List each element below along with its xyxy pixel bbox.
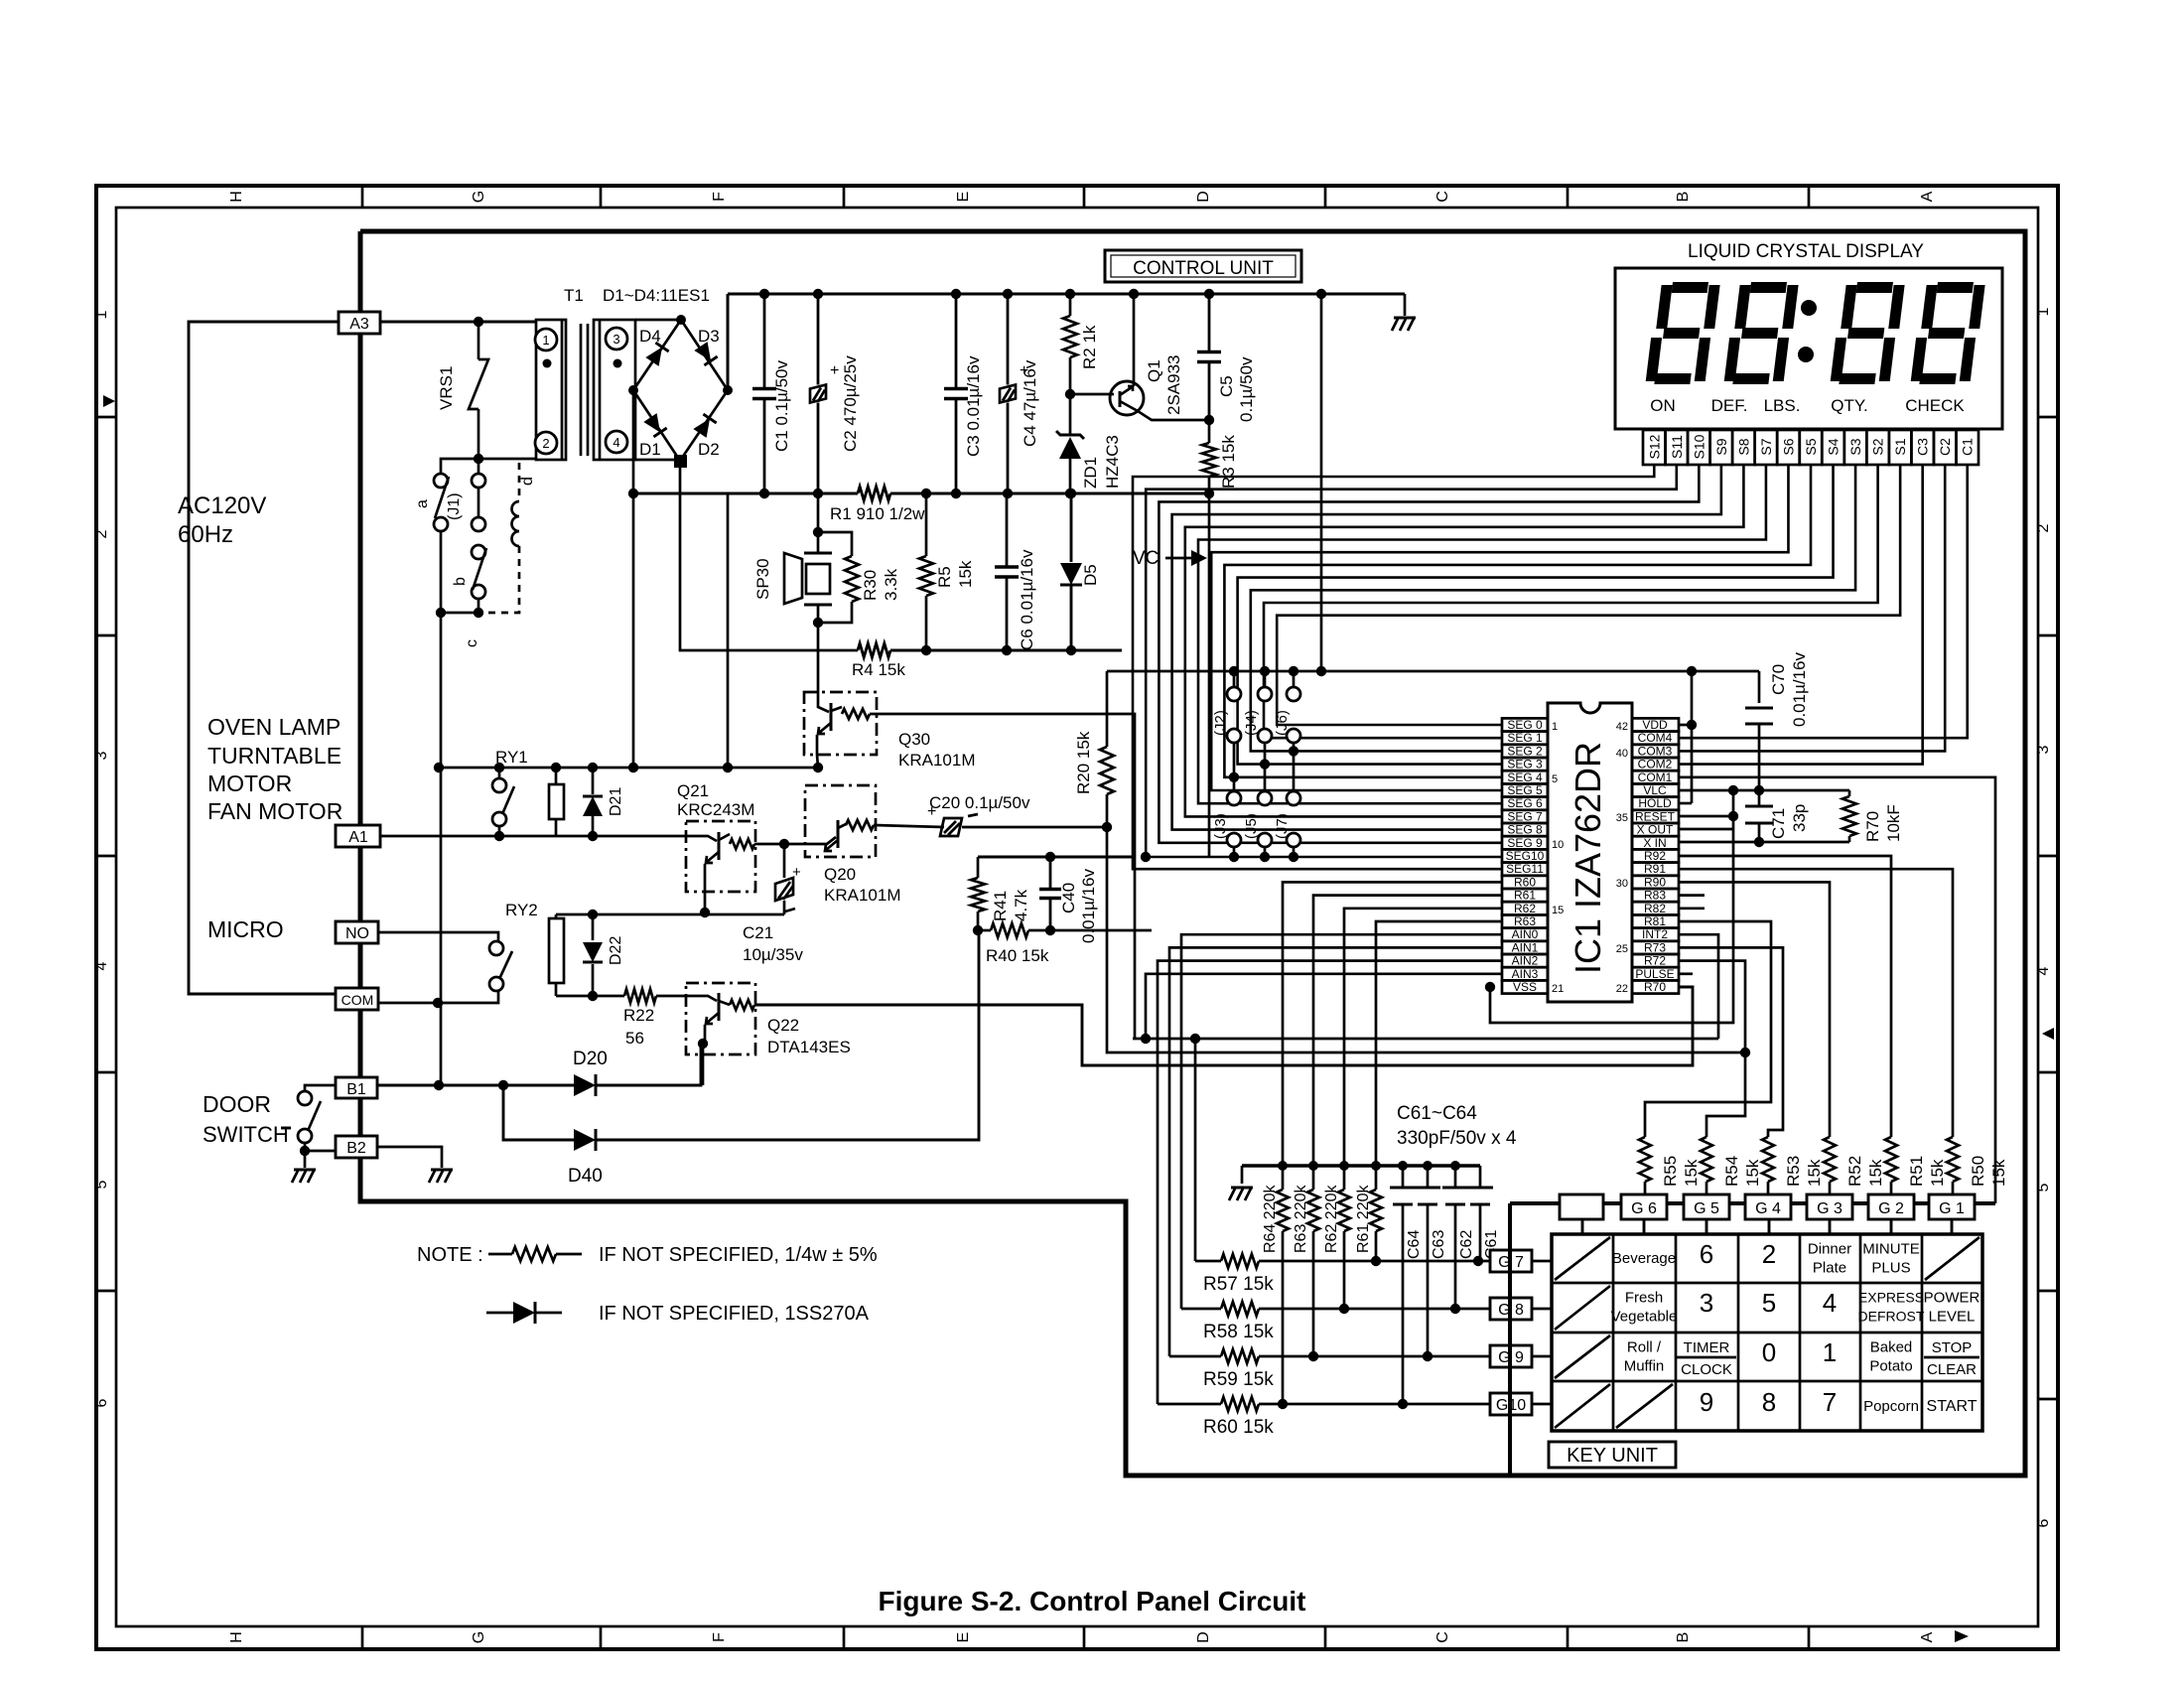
svg-text:R73: R73 [1644,940,1666,954]
svg-text:B: B [1675,1632,1692,1643]
svg-text:R59 15k: R59 15k [1203,1369,1274,1390]
resistor R70 10kF [1848,790,1851,796]
VC line down from C5/R3 junction [1208,493,1211,857]
svg-text:R30: R30 [861,570,880,601]
svg-text:B1: B1 [346,1081,366,1098]
svg-text:3: 3 [2035,745,2052,754]
svg-text:2: 2 [93,529,110,538]
pin box SEG11 (left) [1502,863,1548,876]
svg-text:S7: S7 [1758,438,1774,455]
wire S9 to SEG8 [1172,465,1721,830]
resistor R3 15k [1202,443,1216,477]
svg-text:NO: NO [345,925,369,942]
svg-text:IF NOT SPECIFIED, 1SS270A: IF NOT SPECIFIED, 1SS270A [599,1303,870,1325]
switch blade b [473,548,486,590]
svg-text:Q21: Q21 [677,781,709,800]
resistor R41 4.7k [977,857,980,878]
svg-text:VRS1: VRS1 [437,366,456,410]
T1 pin 1 [535,329,557,351]
svg-text:R64 220k: R64 220k [1262,1185,1279,1253]
net RESET to VSS loop column [1679,815,1733,818]
resistor R51 15k [1885,1137,1897,1182]
wire COM to RY2 [378,991,498,1003]
capacitor C4 (electrolytic) [1007,294,1010,385]
wire C3 to COM2 [1679,465,1923,765]
pin box R83 (right) [1632,889,1679,902]
svg-text:AIN3: AIN3 [1512,967,1539,981]
svg-text:R90: R90 [1644,875,1666,889]
lower supply rail [633,492,858,495]
resistor R64 220k [1282,1166,1285,1190]
svg-text:SP30: SP30 [753,558,772,600]
svg-text:(J6): (J6) [1274,710,1291,736]
svg-text:D3: D3 [698,327,720,346]
svg-text:LBS.: LBS. [1764,396,1801,415]
net AIN1 to R59 [1169,947,1502,1356]
svg-text:NOTE :: NOTE : [417,1244,483,1266]
node NO terminal box [336,921,378,943]
svg-text:Figure S-2. Control Panel Circ: Figure S-2. Control Panel Circuit [879,1586,1306,1616]
net R72 to R54 column [1679,961,1745,1137]
svg-text:R4 15k: R4 15k [852,660,905,679]
svg-text:D1: D1 [639,440,661,459]
wire A3 to AC line left bracket [189,322,339,994]
svg-text:IF NOT SPECIFIED, 1/4w ± 5%: IF NOT SPECIFIED, 1/4w ± 5% [599,1244,878,1266]
svg-text:A1: A1 [348,829,368,846]
svg-text:R92: R92 [1644,849,1666,863]
pin box R91 (right) [1632,863,1679,876]
svg-text:B2: B2 [346,1140,366,1157]
diode D5 [1070,493,1073,562]
ground at door switch [304,1151,307,1168]
svg-text:VLC: VLC [1643,783,1667,797]
svg-text:D5: D5 [1081,564,1100,586]
LCD digit 2 [1723,282,1799,384]
svg-text:7: 7 [1823,1387,1837,1417]
capacitor C64 [1402,1166,1405,1188]
svg-text:R72: R72 [1644,954,1666,968]
svg-text:F: F [711,1632,728,1642]
resistor R61 220k [1375,1166,1378,1190]
resistor R57 15k [1195,1260,1221,1263]
pin box SEG 9 (left) [1502,836,1548,849]
transistor Q21 KRC243M (digital) [686,821,755,892]
pin box R81 (right) [1632,914,1679,927]
diode D20 [377,1084,574,1087]
node G 3 box [1807,1194,1852,1219]
wire VSS loop under IC [1490,790,1733,1023]
svg-text:C61~C64: C61~C64 [1397,1103,1477,1124]
svg-text:VSS: VSS [1513,980,1537,994]
IC IC1 IZA762DR body [1548,703,1632,1002]
svg-text:FAN MOTOR: FAN MOTOR [207,798,342,824]
svg-text:VDD: VDD [1642,718,1668,732]
pin box VSS (left) [1502,980,1548,993]
net VDD pin to x1704 [1679,724,1692,727]
svg-text:SWITCH: SWITCH [203,1122,289,1147]
svg-text:COM4: COM4 [1638,731,1673,745]
resistor R2 1k [1069,294,1072,316]
svg-text:R63 220k: R63 220k [1293,1185,1309,1253]
svg-text:R1 910 1/2w: R1 910 1/2w [830,504,925,523]
svg-text:DTA143ES: DTA143ES [767,1038,851,1056]
svg-text:KRA101M: KRA101M [898,751,975,770]
resistor R58 15k [1181,1308,1221,1311]
svg-text:S8: S8 [1735,438,1751,455]
node G 4 box [1745,1194,1791,1219]
pin box R61 (left) [1502,889,1548,902]
svg-text:1: 1 [2035,307,2052,316]
diode D1 [643,413,666,437]
svg-text:R57 15k: R57 15k [1203,1274,1274,1295]
svg-text:C3: C3 [1915,438,1931,456]
svg-text:15k: 15k [1928,1159,1947,1187]
svg-text:D: D [1195,191,1212,203]
net R81 to R55 column [1645,921,1771,1137]
svg-text:Popcorn: Popcorn [1863,1398,1919,1415]
svg-text:R91: R91 [1644,862,1666,876]
diode D40 [503,1085,574,1140]
svg-text:SEG 4: SEG 4 [1507,771,1543,784]
svg-text:d: d [519,477,536,486]
svg-text:D20: D20 [573,1049,608,1069]
svg-text:3: 3 [93,751,110,760]
svg-text:C63: C63 [1431,1230,1447,1259]
pin box SEG 3 (left) [1502,758,1548,771]
net R60pin to R64 column [1283,882,1502,1166]
svg-text:R2 1k: R2 1k [1080,325,1099,369]
svg-text:SEG11: SEG11 [1506,862,1544,876]
node G 7 box [1490,1250,1532,1272]
svg-text:C: C [1434,1631,1451,1643]
pin box SEG 1 (left) [1502,732,1548,745]
svg-text:DEF.: DEF. [1711,396,1748,415]
pin box INT2 (right) [1632,928,1679,941]
svg-text:AIN1: AIN1 [1512,940,1539,954]
svg-text:SEG 9: SEG 9 [1507,836,1543,850]
keypad diagonal blank cells [1555,1237,1610,1280]
LCD box [1615,268,2002,429]
svg-text:H: H [228,1631,245,1643]
svg-text:R41: R41 [991,891,1010,921]
node G 9 box [1490,1345,1532,1367]
svg-text:C21: C21 [743,923,773,942]
wire S1 to SEG0 [1277,465,1900,725]
svg-text:E: E [955,1632,972,1643]
svg-text:PLUS: PLUS [1871,1260,1910,1277]
resistor R52 15k [1824,1137,1836,1182]
svg-text:4: 4 [1823,1288,1837,1318]
capacitor C3 [955,294,958,389]
svg-text:S5: S5 [1803,438,1819,455]
control unit board outline [360,231,2025,1475]
svg-text:R62 220k: R62 220k [1323,1185,1340,1253]
net D22 top (y=921) [556,913,784,916]
resistor R55 15k [1639,1137,1651,1182]
wire bridge left node down [632,390,635,768]
svg-text:R61 220k: R61 220k [1355,1185,1372,1253]
pin box COM4 (right) [1632,732,1679,745]
wire VDD rail down (x=1331) [1320,294,1323,671]
svg-text:3.3k: 3.3k [882,568,900,601]
outer border frame [96,186,2058,1649]
net PULSE stub [1679,972,1693,975]
svg-text:15k: 15k [1805,1159,1824,1187]
svg-text:AIN0: AIN0 [1512,927,1539,941]
svg-text:CLEAR: CLEAR [1927,1361,1977,1378]
jumper J2 [1233,671,1236,687]
svg-text:C20 0.1µ/50v: C20 0.1µ/50v [929,793,1030,812]
svg-text:c: c [464,639,480,647]
node G10 box [1490,1393,1532,1415]
svg-text:2: 2 [2035,523,2052,532]
jumper J5 [1264,765,1267,791]
pin box R92 (right) [1632,849,1679,862]
switch group a/b/c with jumper J1 [478,459,480,475]
svg-text:0.01µ/16v: 0.01µ/16v [1790,651,1809,727]
svg-text:SEG 2: SEG 2 [1507,744,1543,758]
svg-text:(J3): (J3) [1212,813,1229,839]
svg-text:SEG 8: SEG 8 [1507,823,1543,837]
svg-text:HOLD: HOLD [1638,796,1672,810]
svg-text:Q30: Q30 [898,730,930,749]
svg-text:HZ4C3: HZ4C3 [1103,435,1122,489]
net SEG10/jumper bottoms (y=863) [978,856,1133,859]
pin box AIN0 (left) [1502,928,1548,941]
svg-text:33p: 33p [1790,804,1809,832]
svg-text:H: H [228,191,245,203]
T1 pin 4 [606,431,627,453]
pin box VLC (right) [1632,783,1679,796]
svg-text:S9: S9 [1713,438,1729,455]
resistor R40 15k [991,923,1028,937]
svg-text:(J5): (J5) [1243,813,1260,839]
diode D21 [592,768,595,794]
svg-text:5: 5 [1552,773,1558,785]
svg-text:C40: C40 [1059,883,1078,913]
svg-text:KRC243M: KRC243M [677,800,754,819]
svg-text:30: 30 [1616,878,1628,890]
svg-text:R70: R70 [1863,811,1882,842]
node G 1 box [1929,1194,1975,1219]
relay coil D21 box [549,784,564,819]
svg-text:Fresh: Fresh [1625,1290,1663,1307]
pin box SEG 4 (left) [1502,771,1548,783]
svg-text:R52: R52 [1845,1156,1864,1187]
svg-text:R54: R54 [1722,1156,1741,1187]
pin box AIN1 (left) [1502,941,1548,954]
svg-text:2: 2 [1762,1239,1776,1269]
svg-text:(J1): (J1) [446,492,463,520]
net R70 pin to Q22 (y=1073) [754,987,1693,1065]
svg-text:MICRO: MICRO [207,916,284,942]
svg-text:ON: ON [1650,396,1676,415]
switch blade a [435,477,449,518]
svg-text:G 4: G 4 [1755,1200,1781,1217]
svg-text:D1~D4:11ES1: D1~D4:11ES1 [603,286,710,305]
svg-text:C1: C1 [1960,438,1976,456]
svg-text:D21: D21 [608,787,624,816]
svg-text:15k: 15k [1743,1159,1762,1187]
svg-text:6: 6 [93,1398,110,1407]
svg-text:COM: COM [341,992,374,1008]
top supply rail [727,294,730,390]
svg-text:D: D [1195,1631,1212,1643]
transistor Q22 DTA143ES (digital) [686,983,755,1054]
svg-text:b: b [452,577,469,586]
KEY UNIT label box [1549,1442,1676,1468]
svg-text:R51: R51 [1907,1156,1926,1187]
svg-text:INT2: INT2 [1642,927,1668,941]
keypad column stubs to G bus [1581,1219,1584,1234]
svg-text:TURNTABLE: TURNTABLE [207,743,341,769]
wire HOLD pin [1679,802,1692,805]
wire switch group down [440,613,443,1085]
wire S12 to SEG11 [1133,465,1654,869]
svg-text:Q1: Q1 [1145,359,1163,382]
svg-text:15k: 15k [1682,1159,1701,1187]
svg-text:G 5: G 5 [1694,1200,1719,1217]
LCD pin boxes S12..C1 [1643,430,1666,465]
node A3 terminal box [339,312,380,334]
svg-text:Beverage: Beverage [1612,1250,1676,1267]
svg-text:Q22: Q22 [767,1016,799,1035]
svg-text:RY2: RY2 [505,901,538,919]
svg-text:42: 42 [1616,721,1628,733]
svg-text:S2: S2 [1870,438,1886,455]
svg-text:+: + [792,864,801,881]
svg-text:S12: S12 [1646,434,1662,459]
note: diode spec [486,1312,513,1315]
svg-text:G 2: G 2 [1878,1200,1904,1217]
pin box AIN2 (left) [1502,954,1548,967]
node B2 terminal box [336,1136,377,1158]
svg-text:B: B [1675,192,1692,203]
svg-text:3: 3 [1700,1288,1713,1318]
svg-text:R60 15k: R60 15k [1203,1417,1274,1438]
pin box COM2 (right) [1632,758,1679,771]
net R62pin to R62 column [1344,909,1502,1166]
svg-text:40: 40 [1616,748,1628,760]
net AIN2 to R60 [1158,961,1502,1404]
net Q22 emitter from D20 [702,1044,705,1085]
ground at top rail right end [1404,294,1407,316]
svg-text:DOOR: DOOR [203,1091,271,1117]
wire C2 to COM3 [1679,465,1945,751]
net A1 (y=842) [380,835,686,838]
capacitor C63 [1427,1166,1430,1188]
net AIN3 down [1146,974,1502,1039]
net AIN0 to R58 [1181,934,1502,1309]
svg-text:0: 0 [1762,1337,1776,1367]
svg-text:R20 15k: R20 15k [1074,731,1093,794]
wire S5 to SEG4 [1224,465,1811,777]
svg-text:CHECK: CHECK [1905,396,1965,415]
pin box R90 (right) [1632,876,1679,889]
svg-text:1: 1 [1552,721,1558,733]
svg-text:G: G [471,191,487,203]
wire C1 to COM4 [1679,465,1968,738]
net B1 with D20 [305,1085,336,1091]
jumper J4 [1264,671,1267,687]
pin box R63 (left) [1502,914,1548,927]
svg-text:Plate: Plate [1813,1260,1846,1277]
svg-text:S11: S11 [1669,435,1685,459]
pin box R70 (right) [1632,980,1679,993]
svg-text:G 6: G 6 [1631,1200,1657,1217]
svg-text:C62: C62 [1458,1230,1475,1259]
wire S8 to SEG7 [1185,465,1744,816]
zone pointer arrows [103,395,115,407]
capacitor C61 [1479,1166,1482,1188]
svg-text:R5: R5 [935,566,954,588]
capacitor C20 0.1u/50v (electrolytic horizontal) [940,818,962,836]
svg-text:35: 35 [1616,812,1628,824]
svg-text:LEVEL: LEVEL [1929,1309,1976,1326]
svg-text:X OUT: X OUT [1637,823,1674,837]
wire B2 right to ground [377,1147,442,1168]
wire R20 column down to y1060 [1107,827,1745,1052]
svg-text:4.7k: 4.7k [1012,889,1030,921]
svg-text:KRA101M: KRA101M [824,886,900,905]
capacitor C6 [1006,493,1009,567]
svg-text:R82: R82 [1644,902,1666,915]
diode D22 [592,914,595,940]
svg-text:MOTOR: MOTOR [207,771,292,796]
svg-text:IC1 IZA762DR: IC1 IZA762DR [1568,742,1608,974]
svg-text:CONTROL UNIT: CONTROL UNIT [1133,258,1274,279]
capacitor C62 [1454,1166,1457,1188]
LCD colon [1801,300,1817,316]
svg-text:E: E [955,192,972,203]
svg-text:0.01µ/16v: 0.01µ/16v [1079,868,1098,943]
ground bus for R61-R64/C61-C64 [1242,1164,1480,1168]
pin box R60 (left) [1502,876,1548,889]
resistor R30 3.3k [818,532,852,556]
svg-text:X IN: X IN [1643,836,1666,850]
svg-text:STOP: STOP [1932,1339,1973,1356]
svg-text:6: 6 [1700,1239,1713,1269]
svg-text:S3: S3 [1847,438,1863,455]
CONTROL UNIT label box [1105,250,1301,282]
capacitor C21 10u/35v [783,844,786,878]
svg-text:10µ/35v: 10µ/35v [743,945,803,964]
pin box SEG10 (left) [1502,849,1548,862]
svg-text:R81: R81 [1644,914,1666,928]
net R92 to R51 column [1679,856,1891,1137]
svg-text:A3: A3 [349,316,369,333]
svg-text:Baked: Baked [1870,1339,1913,1356]
svg-text:S6: S6 [1780,438,1796,455]
svg-text:15: 15 [1552,905,1564,916]
capacitor C70 0.01u/16v [1758,671,1761,703]
svg-text:SEG 3: SEG 3 [1507,758,1543,772]
svg-text:D40: D40 [568,1166,603,1187]
svg-text:Q20: Q20 [824,865,856,884]
svg-text:2SA933: 2SA933 [1164,355,1183,416]
wire S2 to SEG1 [1264,465,1878,738]
net X IN (y=848) [1679,841,1849,844]
svg-text:C2: C2 [1937,438,1953,456]
pin box R72 (right) [1632,954,1679,967]
net R63pin to R61 column [1376,921,1502,1166]
speaker SP30 [817,493,820,532]
svg-text:5: 5 [93,1180,110,1189]
jumper J7 [1293,751,1296,791]
svg-text:R63: R63 [1514,914,1536,928]
svg-text:RESET: RESET [1635,809,1676,823]
diode D4 [645,343,668,366]
